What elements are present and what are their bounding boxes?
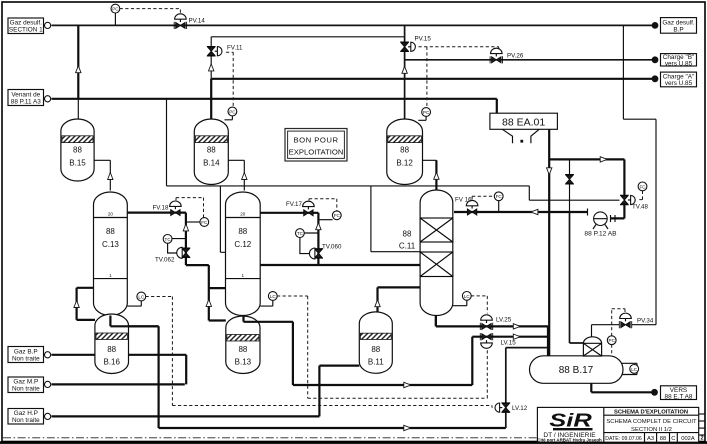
svg-text:C: C <box>671 436 675 442</box>
svg-text:88: 88 <box>371 345 380 354</box>
svg-text:FV.11: FV.11 <box>227 45 243 52</box>
svg-text:B.14: B.14 <box>203 159 220 168</box>
svg-text:88 E.T A8: 88 E.T A8 <box>665 393 693 400</box>
svg-text:LV.12: LV.12 <box>512 405 528 412</box>
svg-text:PC: PC <box>229 109 236 114</box>
svg-text:LC: LC <box>631 367 638 372</box>
svg-text:FV.18: FV.18 <box>153 204 169 211</box>
svg-text:SCHEMA D'EXPLOITATION: SCHEMA D'EXPLOITATION <box>614 409 688 415</box>
svg-text:1: 1 <box>109 273 112 278</box>
svg-text:vers U.85: vers U.85 <box>665 60 693 67</box>
svg-text:88 P.12 AB: 88 P.12 AB <box>584 231 617 238</box>
svg-text:LV.25: LV.25 <box>496 317 512 324</box>
svg-text:B.13: B.13 <box>235 358 252 367</box>
svg-text:88: 88 <box>238 345 247 354</box>
svg-text:88: 88 <box>107 345 116 354</box>
svg-text:88 EA.01: 88 EA.01 <box>502 116 545 128</box>
svg-text:Gaz M.P: Gaz M.P <box>13 379 38 386</box>
svg-text:vers U.85: vers U.85 <box>665 80 693 87</box>
svg-text:TV.060: TV.060 <box>322 244 342 251</box>
svg-text:B.15: B.15 <box>69 159 86 168</box>
svg-text:SCHEMA COMPLET DE CIRCUIT: SCHEMA COMPLET DE CIRCUIT <box>606 419 697 425</box>
svg-text:PC: PC <box>112 7 119 12</box>
svg-text:TV.062: TV.062 <box>155 257 175 264</box>
svg-text:C.13: C.13 <box>102 240 119 249</box>
svg-text:B.P: B.P <box>673 26 683 33</box>
svg-text:DATE: 09.07.06: DATE: 09.07.06 <box>605 436 642 442</box>
svg-text:SECTION 1: SECTION 1 <box>9 27 43 34</box>
svg-text:PC: PC <box>609 338 616 343</box>
svg-text:TC: TC <box>297 231 304 236</box>
svg-text:88: 88 <box>73 146 82 155</box>
svg-text:Gaz H.P: Gaz H.P <box>14 410 38 417</box>
svg-text:Non traite: Non traite <box>12 356 40 363</box>
svg-text:PV.14: PV.14 <box>189 17 206 24</box>
svg-text:88: 88 <box>403 230 412 239</box>
svg-text:88: 88 <box>660 436 666 442</box>
svg-text:88 P.11 A3: 88 P.11 A3 <box>11 99 41 106</box>
svg-text:B.11: B.11 <box>368 358 384 367</box>
svg-text:LC: LC <box>270 294 277 299</box>
svg-text:2: 2 <box>700 436 703 442</box>
svg-text:Non traite: Non traite <box>12 386 40 393</box>
svg-text:PV.26: PV.26 <box>507 53 524 60</box>
svg-text:PC: PC <box>423 110 430 115</box>
svg-text:Non traite: Non traite <box>12 417 40 424</box>
svg-text:88: 88 <box>207 146 216 155</box>
svg-text:EXPLOITATION: EXPLOITATION <box>289 147 344 156</box>
svg-text:Cité port ARBAT Hydra Joseph: Cité port ARBAT Hydra Joseph <box>537 438 602 443</box>
svg-text:FC: FC <box>639 184 646 189</box>
svg-text:FC: FC <box>496 194 503 199</box>
svg-text:FC: FC <box>201 220 208 225</box>
svg-text:B.12: B.12 <box>396 159 413 168</box>
svg-text:20: 20 <box>108 212 114 217</box>
svg-text:88: 88 <box>238 227 247 236</box>
svg-text:1: 1 <box>242 273 245 278</box>
svg-text:C.11: C.11 <box>399 242 416 251</box>
svg-text:88 B.17: 88 B.17 <box>559 365 594 376</box>
svg-text:TC: TC <box>165 237 172 242</box>
svg-text:Gaz desulf.: Gaz desulf. <box>10 20 43 27</box>
svg-text:20: 20 <box>240 212 246 217</box>
svg-text:C.12: C.12 <box>234 240 251 249</box>
svg-text:LC: LC <box>138 294 145 299</box>
svg-text:A3: A3 <box>647 436 654 442</box>
svg-text:BON POUR: BON POUR <box>293 135 338 144</box>
svg-text:LV.15: LV.15 <box>501 339 517 346</box>
svg-text:PV.34: PV.34 <box>637 318 654 325</box>
svg-text:SiR: SiR <box>549 410 591 431</box>
svg-text:TV.48: TV.48 <box>632 204 648 211</box>
svg-text:Venant de: Venant de <box>11 91 40 98</box>
svg-text:SECTION II 1/2: SECTION II 1/2 <box>631 427 672 433</box>
svg-text:88: 88 <box>400 146 409 155</box>
svg-text:LC: LC <box>464 294 471 299</box>
svg-text:Gaz desulf.: Gaz desulf. <box>662 19 695 26</box>
svg-text:FV.17: FV.17 <box>286 201 302 208</box>
svg-text:002A: 002A <box>681 436 695 442</box>
svg-text:Gaz B.P: Gaz B.P <box>14 348 38 355</box>
svg-text:FC: FC <box>334 213 341 218</box>
svg-text:FV 16: FV 16 <box>455 197 472 204</box>
svg-text:PV.15: PV.15 <box>415 36 432 43</box>
svg-text:B.16: B.16 <box>103 358 120 367</box>
svg-text:88: 88 <box>106 227 115 236</box>
